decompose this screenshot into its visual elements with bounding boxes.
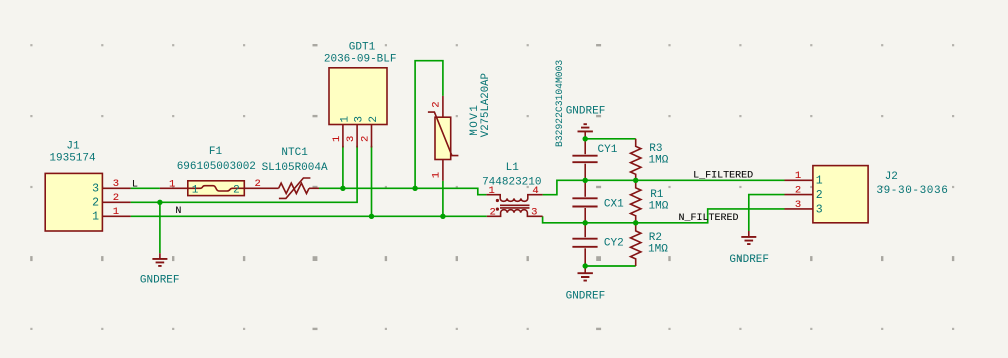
wire MOV1 pin1 to N — [442, 181, 444, 217]
svg-text:L_FILTERED: L_FILTERED — [693, 171, 753, 182]
junction MOV1 pin1 / N — [440, 214, 445, 219]
svg-text:GNDREF: GNDREF — [140, 274, 180, 286]
svg-text:1: 1 — [113, 206, 119, 218]
svg-text:3: 3 — [816, 203, 823, 216]
svg-text:1: 1 — [192, 185, 199, 197]
junction CY1 / GNDREF row — [583, 136, 588, 141]
capacitor CY1 — [584, 141, 586, 154]
svg-text:2: 2 — [489, 207, 495, 219]
wire GDT1 pin2 to N — [371, 146, 373, 217]
svg-text:3: 3 — [92, 183, 99, 196]
resistor R2 — [631, 223, 641, 266]
svg-text:2036-09-BLF: 2036-09-BLF — [324, 53, 397, 65]
connector J2 — [813, 166, 868, 223]
svg-text:GDT1: GDT1 — [349, 42, 376, 54]
J2 pin 1 — [785, 179, 813, 181]
svg-text:4: 4 — [532, 185, 538, 197]
fuse F1 — [160, 187, 188, 189]
J2 pin 2 — [785, 194, 813, 196]
svg-text:2: 2 — [816, 189, 823, 202]
resistor R3 — [631, 139, 641, 181]
svg-text:J2: J2 — [885, 171, 898, 183]
svg-text:3: 3 — [795, 199, 801, 211]
svg-text:GNDREF: GNDREF — [566, 291, 606, 303]
svg-text:1: 1 — [331, 136, 343, 142]
L1 bottom winding pins 2-3 — [487, 210, 543, 217]
connector J1 — [45, 173, 102, 231]
svg-text:L: L — [132, 179, 138, 190]
thermistor NTC1 — [279, 183, 309, 193]
svg-text:GNDREF: GNDREF — [566, 105, 606, 117]
junction CY2 / GNDREF row — [583, 263, 588, 268]
svg-text:3: 3 — [354, 116, 366, 123]
ground GNDREF below CY2 — [584, 266, 586, 273]
capacitor CY2 — [584, 223, 586, 237]
wire E: J1 pin2 to GDT1 pin3 — [131, 146, 358, 203]
svg-text:3: 3 — [531, 207, 537, 219]
svg-text:CY1: CY1 — [598, 144, 618, 156]
svg-text:SL105R004A: SL105R004A — [262, 162, 328, 174]
svg-text:1: 1 — [795, 170, 801, 182]
wire GNDREF row to R2 bottom — [585, 265, 636, 267]
junction GDT1 pin1 / L — [340, 186, 345, 191]
gas discharge tube GDT1 — [329, 68, 387, 125]
svg-text:3: 3 — [345, 136, 357, 142]
J1 pin 1 — [102, 215, 130, 217]
svg-text:1: 1 — [488, 185, 494, 197]
wire N: J1 pin1 to L1 pin2 — [131, 215, 487, 217]
wire GNDREF row to R3 top — [585, 138, 636, 140]
svg-text:F1: F1 — [209, 146, 223, 158]
wire L_FILTERED: L1 pin4 to J2 pin1 — [543, 180, 785, 194]
svg-text:39-30-3036: 39-30-3036 — [876, 185, 948, 197]
J1 pin 3 — [102, 187, 130, 189]
L1 top winding pins 1-4 — [486, 195, 542, 202]
GDT1 pin 1 — [342, 125, 344, 148]
svg-text:N: N — [175, 206, 181, 217]
svg-text:2: 2 — [113, 192, 119, 204]
svg-text:R1: R1 — [650, 189, 664, 201]
GDT1 pin 2 — [371, 125, 373, 148]
svg-text:1: 1 — [339, 116, 351, 123]
J1 pin 2 — [102, 201, 130, 203]
svg-text:2: 2 — [255, 178, 261, 190]
svg-text:R3: R3 — [649, 143, 662, 155]
svg-text:2: 2 — [430, 101, 442, 107]
junction R1 / N_FILTERED — [633, 220, 638, 225]
svg-text:1MΩ: 1MΩ — [648, 244, 668, 256]
junction E/ground — [157, 200, 162, 205]
svg-text:1: 1 — [92, 211, 99, 224]
junction MOV1 pin2 / L — [412, 186, 417, 191]
svg-text:L1: L1 — [506, 162, 520, 174]
junction GDT1 pin2 / N — [369, 214, 374, 219]
ground GNDREF above CY1 (flipped) — [584, 131, 586, 138]
resistor R1 — [631, 180, 641, 223]
svg-text:CY2: CY2 — [604, 238, 624, 250]
svg-text:GNDREF: GNDREF — [729, 254, 769, 266]
svg-text:CX1: CX1 — [604, 198, 624, 210]
svg-text:2: 2 — [233, 185, 240, 197]
svg-text:2: 2 — [360, 136, 372, 142]
junction R3 / L_FILTERED — [633, 178, 638, 183]
J2 pin 3 — [785, 208, 813, 210]
junction CY1 / L_FILTERED — [583, 178, 588, 183]
svg-text:696105003002: 696105003002 — [177, 161, 256, 173]
svg-text:V275LA20AP: V275LA20AP — [480, 73, 492, 137]
junction dots — [157, 136, 638, 269]
wire E to GNDREF — [159, 202, 161, 253]
svg-text:1MΩ: 1MΩ — [649, 201, 669, 213]
capacitor CX1 — [584, 180, 586, 197]
L1 core bars — [500, 205, 530, 208]
ground GNDREF at J1 — [159, 253, 161, 259]
svg-text:3: 3 — [113, 178, 119, 190]
svg-text:1935174: 1935174 — [49, 152, 96, 164]
wire L: NTC1 to L1 pin1 — [319, 188, 486, 194]
GDT1 pin 3 — [356, 125, 358, 148]
svg-text:N_FILTERED: N_FILTERED — [679, 213, 739, 224]
svg-text:1MΩ: 1MΩ — [649, 154, 669, 166]
wire MOV1 pin2 loop to L — [415, 61, 443, 189]
junction CX1 / N_FILTERED — [583, 220, 588, 225]
wire N_FILTERED: L1 pin3 to J2 pin3 — [543, 209, 785, 223]
varistor MOV1 — [442, 96, 444, 117]
svg-text:1: 1 — [169, 178, 175, 190]
svg-text:J1: J1 — [66, 140, 80, 152]
svg-text:NTC1: NTC1 — [281, 147, 308, 159]
svg-text:1: 1 — [430, 172, 442, 178]
svg-text:B32922C3104M003: B32922C3104M003 — [554, 60, 565, 147]
wire L: J1 pin3 to F1 — [131, 187, 160, 189]
svg-text:2: 2 — [795, 185, 801, 197]
svg-text:R2: R2 — [649, 232, 662, 244]
ground GNDREF at J2 — [748, 231, 750, 237]
svg-text:2: 2 — [92, 197, 99, 210]
svg-text:2: 2 — [368, 116, 380, 123]
svg-text:1: 1 — [816, 175, 823, 188]
wire J2 pin2 to GNDREF — [749, 195, 785, 231]
L1 polarity dots — [496, 199, 499, 202]
wire GDT1 pin1 to L — [342, 146, 344, 189]
